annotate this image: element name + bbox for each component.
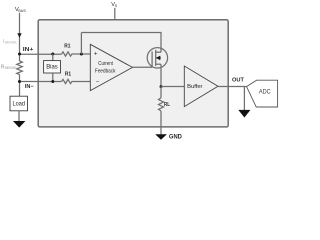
svg-text:Current: Current	[98, 61, 113, 67]
bias box	[44, 61, 61, 73]
junction source node	[160, 85, 163, 88]
wire R1 top to opamp	[73, 53, 90, 55]
wire IN+	[20, 53, 62, 55]
node VBUS label	[15, 7, 26, 13]
svg-text:Feedback: Feedback	[95, 69, 115, 75]
label ISENSE	[3, 39, 17, 45]
supply VS label	[111, 2, 118, 8]
junction feedback node	[80, 53, 83, 56]
current arrow ISENSE	[17, 33, 21, 38]
junction IN- rail	[18, 80, 21, 83]
resistor RL	[159, 98, 164, 111]
label RSENSE	[1, 64, 18, 70]
svg-text:RL: RL	[164, 102, 171, 108]
svg-text:R1: R1	[65, 71, 71, 77]
svg-text:OUT: OUT	[232, 78, 244, 84]
transistor body arrow	[156, 57, 161, 59]
wire feedback vertical	[80, 33, 82, 55]
wire rail lower	[19, 75, 21, 97]
transistor gate bar	[151, 52, 153, 68]
wire source to buffer	[161, 86, 184, 88]
resistor R1 top	[62, 52, 74, 56]
svg-text:Buffer: Buffer	[187, 84, 202, 90]
transistor drain connection	[156, 51, 161, 53]
wire opamp output to gate	[133, 66, 153, 68]
transistor channel bar	[155, 50, 157, 66]
pin VS stub	[114, 8, 116, 20]
wire R1 bottom to opamp	[73, 81, 90, 83]
wire source down	[160, 64, 162, 86]
IC body U1	[38, 20, 228, 127]
wire VBUS rail	[19, 13, 21, 61]
svg-text:Bias: Bias	[46, 64, 58, 71]
wire OUT	[218, 86, 247, 88]
transistor source connection	[156, 63, 161, 65]
wire IN-	[20, 81, 62, 83]
junction bias top	[51, 53, 54, 56]
svg-text:R1: R1	[64, 44, 70, 50]
svg-text:S: S	[115, 4, 118, 8]
buffer amp	[184, 66, 218, 107]
ADC block	[247, 80, 278, 107]
wire bias top stub	[52, 54, 54, 61]
load box	[10, 96, 28, 111]
wire bias bottom stub	[52, 73, 54, 82]
svg-text:+: +	[94, 52, 98, 58]
op-amp current feedback	[90, 44, 132, 90]
junction bias bottom	[51, 80, 54, 83]
label Current Feedback	[95, 61, 115, 74]
resistor RSENSE	[17, 61, 23, 75]
svg-text:SENSE: SENSE	[5, 66, 18, 70]
svg-text:IN−: IN−	[25, 84, 34, 90]
wire RL to GND pin	[160, 111, 162, 134]
svg-text:−: −	[96, 79, 100, 85]
wire load to ground	[18, 111, 20, 121]
svg-text:ADC: ADC	[259, 89, 271, 96]
svg-text:BUS: BUS	[18, 9, 26, 13]
resistor R1 bottom	[62, 79, 74, 83]
ground adc side	[238, 110, 250, 118]
junction IN+ rail	[18, 53, 21, 56]
ground GND	[155, 134, 167, 140]
wire to adc ground	[243, 87, 245, 111]
svg-text:Load: Load	[13, 101, 25, 108]
ground load	[13, 121, 25, 128]
transistor Q1 body circle	[147, 48, 167, 68]
svg-text:GND: GND	[169, 133, 183, 140]
svg-text:IN+: IN+	[23, 47, 34, 53]
wire source to RL	[160, 87, 162, 98]
svg-text:SENSE: SENSE	[5, 41, 18, 45]
wire feedback top	[81, 33, 161, 53]
